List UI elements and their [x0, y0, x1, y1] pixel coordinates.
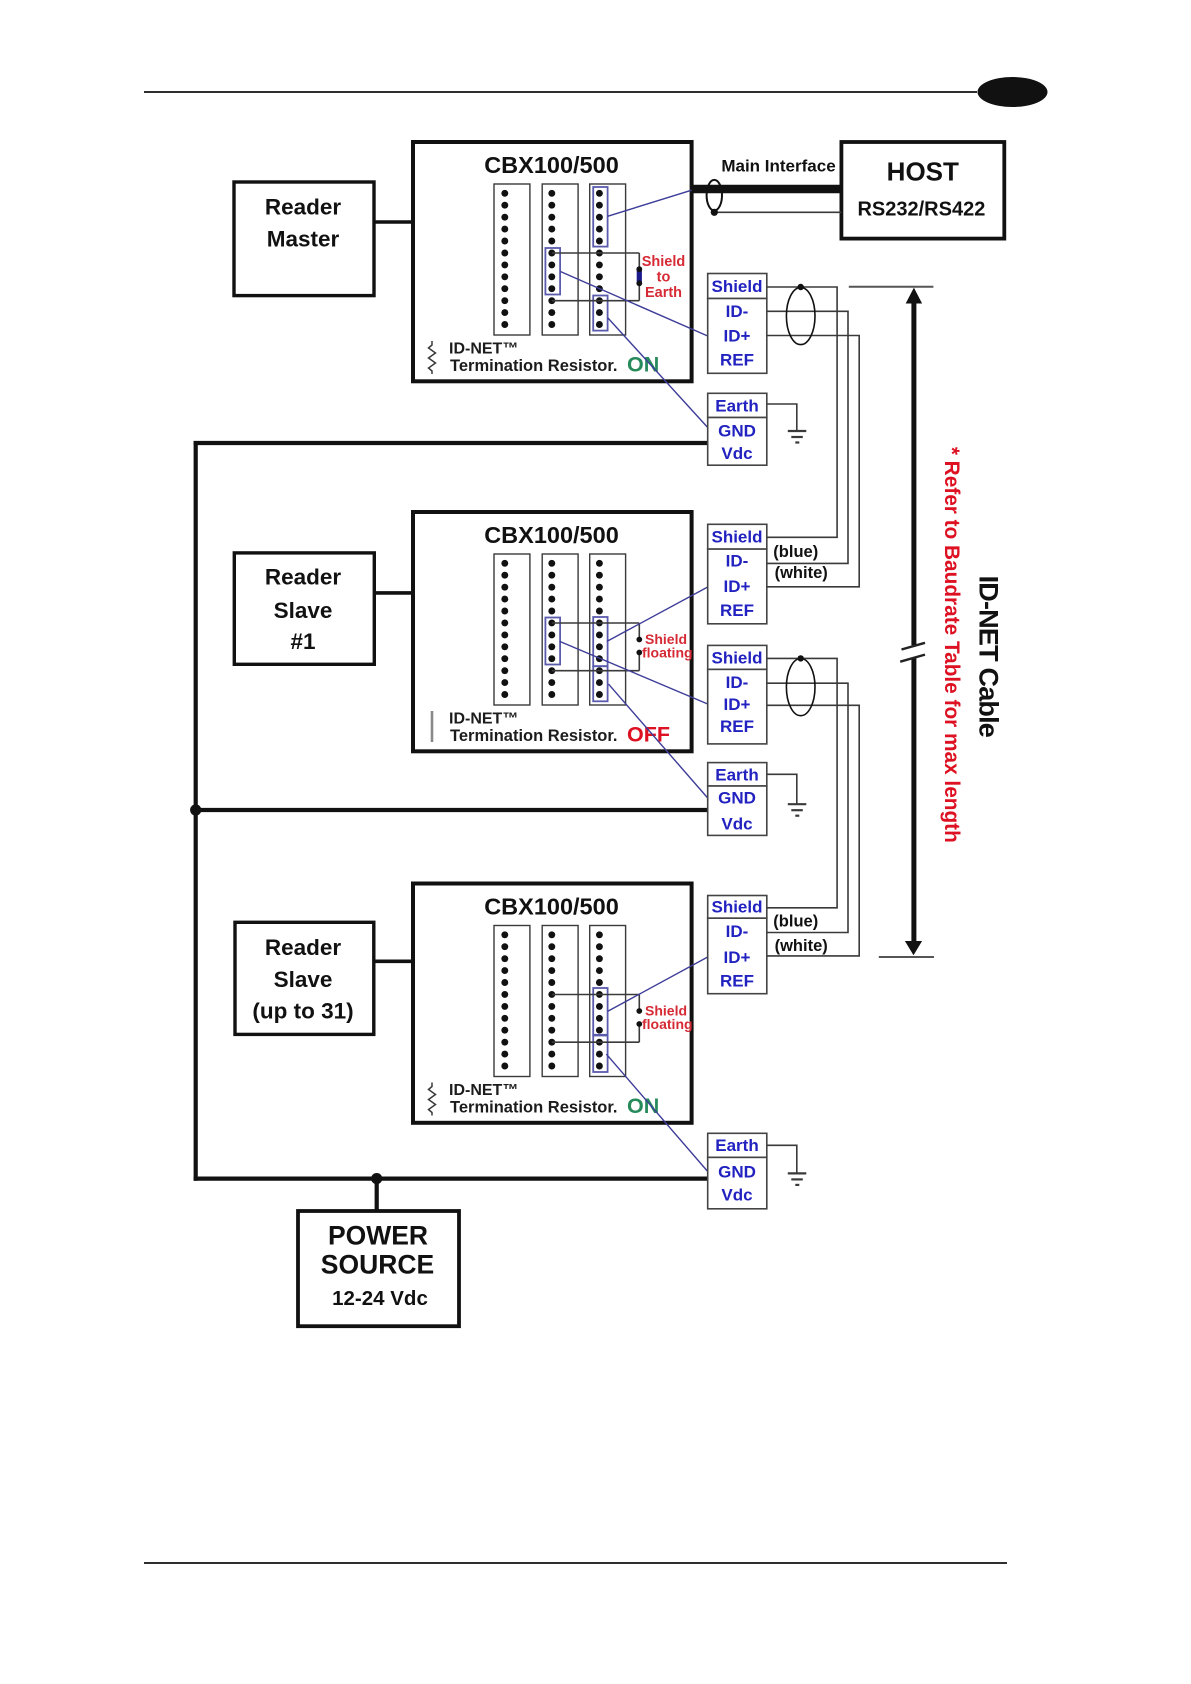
- svg-text:Earth: Earth: [715, 765, 758, 784]
- wire earth EC: [767, 1145, 797, 1173]
- bottom rule: [144, 1562, 1007, 1564]
- svg-text:ID+: ID+: [724, 948, 751, 967]
- power wire to Earth/GND/Vdc block 3: [194, 1176, 709, 1180]
- highlight rect strip3 pins6-9 (CBX2 slave1): [593, 617, 607, 666]
- box Reader Master: [234, 182, 374, 296]
- wire CBX3 power pins to GND block EC: [606, 1054, 707, 1171]
- wire shield cable C to D: [767, 658, 837, 907]
- svg-text:GND: GND: [718, 789, 756, 808]
- svg-text:ID-NET™: ID-NET™: [449, 711, 518, 728]
- box POWER SOURCE: [298, 1211, 459, 1326]
- wire bracket right upper open (CBX3 slave31): [638, 995, 640, 1012]
- svg-text:to: to: [657, 270, 671, 286]
- power wire to Earth/GND/Vdc block 1: [194, 441, 708, 445]
- terminal block D main box: [708, 918, 767, 994]
- top rule: [144, 91, 977, 93]
- termination open symbol (CBX2 slave1): [431, 711, 434, 742]
- terminal block EC GND/Vdc box: [708, 1157, 767, 1208]
- svg-text:Shield: Shield: [642, 254, 686, 270]
- junction dot power bus / power source: [371, 1173, 382, 1184]
- highlight rect strip2 pins6-9 (CBX2 slave1): [545, 618, 560, 665]
- wire earth EB: [767, 774, 797, 804]
- junction dot resistor bottom (CBX1 master): [636, 280, 642, 286]
- terminal block B Shield box: [708, 524, 767, 549]
- svg-text:HOST: HOST: [887, 157, 959, 187]
- terminal strip 1 of CBX1 master: [494, 184, 530, 335]
- svg-text:CBX100/500: CBX100/500: [484, 152, 619, 178]
- svg-text:Shield: Shield: [711, 648, 762, 667]
- wire CBX3 ID-NET in to ID+ block D: [608, 957, 708, 1011]
- wire ID+ cable C to D: [767, 705, 859, 956]
- svg-text:CBX100/500: CBX100/500: [484, 894, 619, 920]
- terminal strip 1 of CBX3 slave31: [494, 926, 530, 1077]
- svg-text:Slave: Slave: [274, 967, 333, 992]
- svg-text:#1: #1: [290, 629, 315, 654]
- svg-text:Shield: Shield: [711, 277, 762, 296]
- resistor termination symbol (CBX1 master): [429, 341, 436, 374]
- junction dot power bus / block2 branch: [190, 804, 201, 815]
- CBX enclosure CBX1 master: [413, 142, 692, 381]
- svg-text:SOURCE: SOURCE: [321, 1250, 434, 1280]
- wire main interface return: [714, 211, 841, 213]
- svg-text:(blue): (blue): [773, 543, 818, 561]
- terminal block EB GND/Vdc box: [708, 786, 767, 835]
- dot shield floating lower (CBX3 slave31): [636, 1021, 642, 1027]
- wire CBX1 main-interface pins to cable: [608, 190, 692, 216]
- terminal block B main box: [708, 549, 767, 624]
- ground symbol EC: [788, 1173, 807, 1185]
- wire CBX2 ID-NET out to ID+ block C: [560, 641, 708, 704]
- pin dots strip 1 of CBX3 slave31: [501, 931, 508, 1069]
- svg-text:REF: REF: [720, 601, 754, 620]
- svg-text:Reader: Reader: [265, 935, 342, 960]
- cable bundle ellipse C to D: [786, 659, 815, 716]
- svg-text:REF: REF: [720, 717, 754, 736]
- cable bundle ellipse (main interface): [707, 180, 722, 211]
- pin dots strip 3 of CBX1 master: [596, 190, 603, 328]
- svg-text:floating: floating: [642, 645, 693, 661]
- terminal block A main box: [708, 299, 767, 374]
- wire shield bracket bottom (CBX1 master): [552, 300, 640, 302]
- svg-text:ID-: ID-: [726, 302, 749, 321]
- dot shield floating lower (CBX2 slave1): [636, 650, 642, 656]
- svg-text:ID-NET™: ID-NET™: [449, 341, 518, 358]
- svg-text:Master: Master: [267, 227, 340, 252]
- svg-text:Earth: Earth: [715, 396, 758, 415]
- svg-text:POWER: POWER: [328, 1221, 428, 1251]
- pin dots strip 3 of CBX2 slave1: [596, 560, 603, 698]
- wire bracket right lower open (CBX2 slave1): [638, 653, 640, 671]
- terminal block D Shield box: [708, 896, 767, 919]
- wire Reader Master to CBX1: [374, 220, 413, 224]
- arrowhead up: [906, 288, 922, 304]
- resistor shield-to-earth (CBX1 master): [637, 269, 642, 284]
- terminal strip 2 of CBX1 master: [542, 184, 578, 335]
- svg-text:Termination Resistor.: Termination Resistor.: [450, 357, 617, 375]
- wire CBX2 power pins to GND block EB: [609, 684, 708, 798]
- svg-text:ID-NET Cable: ID-NET Cable: [974, 576, 1004, 738]
- highlight rect strip3 pins1-5 (CBX1 master): [593, 187, 607, 247]
- wire bracket right upper (CBX1 master): [638, 253, 640, 269]
- junction dot resistor top (CBX1 master): [636, 266, 642, 272]
- dimension terminator bottom: [879, 956, 934, 958]
- dot shield floating upper (CBX3 slave31): [636, 1008, 642, 1014]
- svg-text:Shield: Shield: [711, 898, 762, 917]
- cable break slash 1: [902, 643, 926, 650]
- wire shield bracket top (CBX3 slave31): [552, 994, 640, 996]
- svg-text:(white): (white): [775, 937, 828, 955]
- svg-text:OFF: OFF: [627, 723, 670, 747]
- wire bracket right upper open (CBX2 slave1): [638, 623, 640, 640]
- CBX enclosure CBX2 slave1: [413, 512, 692, 751]
- terminal block C Shield box: [708, 645, 767, 669]
- terminal block EA GND/Vdc box: [708, 418, 767, 466]
- wire bracket right lower open (CBX3 slave31): [638, 1024, 640, 1042]
- dimension arrow upper segment: [911, 301, 916, 645]
- svg-text:ID-: ID-: [726, 922, 749, 941]
- svg-text:Vdc: Vdc: [721, 815, 752, 834]
- highlight rect strip3 pins10-12 (CBX2 slave1): [593, 666, 607, 701]
- pin dots strip 1 of CBX1 master: [501, 190, 508, 328]
- wire CBX1 ID-NET out to ID+ block A: [560, 271, 708, 336]
- wire ID+ cable A to B: [767, 336, 859, 587]
- svg-text:Earth: Earth: [645, 285, 682, 301]
- ground symbol EA: [788, 431, 807, 443]
- wire shield bracket bottom (CBX2 slave1): [552, 670, 640, 672]
- svg-text:Slave: Slave: [274, 598, 333, 623]
- cable bundle ellipse A to B: [786, 287, 815, 344]
- junction dot main interface: [711, 209, 718, 216]
- highlight rect strip3 pins10-12 (CBX3 slave31): [593, 1036, 607, 1073]
- svg-text:ID+: ID+: [724, 577, 751, 596]
- terminal block EC Earth box: [708, 1133, 767, 1157]
- wire CBX1 power pins to GND block EA: [608, 318, 708, 428]
- wire shield cable A to B: [767, 287, 837, 537]
- dot shield floating upper (CBX2 slave1): [636, 637, 642, 643]
- svg-text:ID+: ID+: [724, 327, 751, 346]
- wire shield bracket top (CBX1 master): [552, 252, 640, 254]
- power bus vertical wire: [194, 441, 198, 1181]
- junction dot shield C to D: [798, 655, 804, 661]
- svg-text:Earth: Earth: [715, 1136, 758, 1155]
- dimension terminator top: [849, 286, 934, 288]
- svg-text:Shield: Shield: [711, 528, 762, 547]
- terminal block A Shield box: [708, 274, 767, 299]
- svg-text:ID-: ID-: [726, 673, 749, 692]
- svg-text:ID+: ID+: [724, 695, 751, 714]
- terminal strip 3 of CBX1 master: [590, 184, 626, 335]
- wire main interface cable (thick): [692, 185, 842, 194]
- terminal strip 3 of CBX2 slave1: [590, 554, 626, 705]
- svg-text:Vdc: Vdc: [721, 1185, 752, 1204]
- svg-text:REF: REF: [720, 351, 754, 370]
- wire Reader Slave 31 to CBX3: [374, 959, 413, 963]
- svg-text:Termination Resistor.: Termination Resistor.: [450, 727, 617, 745]
- wire shield bracket bottom (CBX3 slave31): [552, 1041, 640, 1043]
- top-right page marker ellipse: [978, 77, 1048, 107]
- svg-text:GND: GND: [718, 422, 756, 441]
- terminal block C main box: [708, 669, 767, 744]
- wire shield bracket top (CBX2 slave1): [552, 622, 640, 624]
- svg-text:Reader: Reader: [265, 195, 342, 220]
- svg-text:GND: GND: [718, 1162, 756, 1181]
- terminal strip 3 of CBX3 slave31: [590, 926, 626, 1077]
- wire bracket right lower (CBX1 master): [638, 284, 640, 301]
- terminal strip 1 of CBX2 slave1: [494, 554, 530, 705]
- terminal block EB Earth box: [708, 763, 767, 786]
- svg-text:RS232/RS422: RS232/RS422: [857, 199, 985, 221]
- dimension arrow lower segment: [911, 658, 916, 943]
- svg-text:12-24 Vdc: 12-24 Vdc: [332, 1287, 428, 1310]
- CBX enclosure CBX3 slave31: [413, 884, 692, 1123]
- box Reader Slave #1: [234, 553, 374, 664]
- junction dot shield A to B: [798, 284, 804, 290]
- svg-text:* Refer to Baudrate Table for: * Refer to Baudrate Table for max length: [940, 447, 963, 843]
- highlight rect strip3 pins10-12 (CBX1 master): [593, 296, 607, 331]
- wire power source stub: [375, 1179, 379, 1211]
- highlight rect strip3 pins6-9 (CBX3 slave31): [593, 988, 607, 1035]
- svg-text:Termination Resistor.: Termination Resistor.: [450, 1099, 617, 1117]
- arrowhead down: [905, 941, 922, 955]
- svg-text:Main Interface: Main Interface: [721, 157, 835, 176]
- wire earth EA: [767, 404, 797, 431]
- svg-text:REF: REF: [720, 972, 754, 991]
- terminal strip 2 of CBX2 slave1: [542, 554, 578, 705]
- pin dots strip 2 of CBX1 master: [548, 190, 555, 328]
- resistor termination symbol (CBX3 slave31): [429, 1083, 436, 1116]
- pin dots strip 1 of CBX2 slave1: [501, 560, 508, 698]
- wire ID- cable C to D: [767, 683, 848, 932]
- terminal strip 2 of CBX3 slave31: [542, 926, 578, 1077]
- wire Reader Slave #1 to CBX2: [374, 591, 413, 595]
- pin dots strip 2 of CBX2 slave1: [548, 560, 555, 698]
- wire CBX2 ID-NET in to ID+ block B: [607, 587, 708, 641]
- svg-text:ID-NET™: ID-NET™: [449, 1082, 518, 1099]
- svg-text:Reader: Reader: [265, 565, 342, 590]
- svg-text:(up to 31): (up to 31): [252, 999, 353, 1024]
- terminal block EA Earth box: [708, 393, 767, 417]
- svg-text:floating: floating: [642, 1016, 693, 1032]
- wire ID- cable A to B: [767, 311, 848, 563]
- power wire to Earth/GND/Vdc block 2: [194, 808, 708, 812]
- box Reader Slave (up to 31): [235, 922, 374, 1034]
- highlight rect strip2 pins6-9 (CBX1 master): [545, 248, 560, 295]
- svg-text:(blue): (blue): [773, 912, 818, 930]
- pin dots strip 2 of CBX3 slave31: [548, 931, 555, 1069]
- box HOST: [841, 142, 1004, 239]
- svg-text:CBX100/500: CBX100/500: [484, 522, 619, 548]
- svg-text:ID-: ID-: [726, 552, 749, 571]
- cable break slash 2: [900, 655, 925, 662]
- ground symbol EB: [788, 804, 807, 816]
- pin dots strip 3 of CBX3 slave31: [596, 931, 603, 1069]
- svg-text:Vdc: Vdc: [721, 444, 752, 463]
- svg-text:(white): (white): [775, 564, 828, 582]
